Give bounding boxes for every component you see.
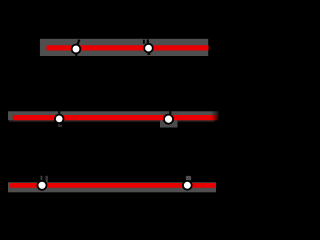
slider 2 right handle square (160, 112, 178, 128)
slider 2 red bar (13, 115, 218, 120)
slider 2 right handle dot (164, 115, 173, 124)
slider 1 red bar (46, 45, 208, 50)
slider 1 track (40, 39, 208, 56)
slider 1 left handle bottom spur (75, 53, 77, 56)
slider 1 left handle tick (76, 39, 80, 46)
slider 2 right handle tick (169, 111, 171, 116)
slider 2 track bottom shadow (9, 120, 215, 121)
slider 3 right handle patch (186, 176, 191, 181)
slider 1 right handle dot (144, 44, 153, 53)
slider 3 right handle dot (183, 181, 192, 190)
slider 2 left handle tick (58, 111, 60, 115)
slider 1 left handle dot (72, 45, 81, 54)
slider 2 track (8, 111, 219, 120)
slider 3 track (8, 182, 216, 192)
slider 3 left handle dot (38, 181, 47, 190)
slider 1 right handle marks (143, 40, 145, 44)
slider 3 red bar (10, 183, 216, 188)
slider 2 right fade (211, 111, 219, 123)
slider 2 left handle lower marks (58, 124, 60, 127)
slider 3 left handle bars (41, 176, 43, 182)
slider 2 left handle dot (55, 115, 64, 124)
